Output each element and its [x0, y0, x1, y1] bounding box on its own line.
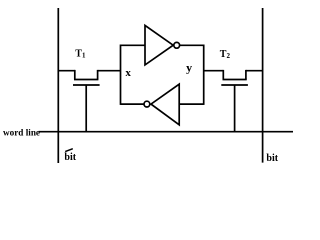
svg-text:T1: T1 [75, 48, 86, 59]
transistor T1 left terminal [74, 70, 76, 80]
inverter I1 triangle (top, points right) [145, 25, 173, 65]
inverter I2 output wire to node x [121, 103, 145, 105]
transistor T2 left terminal [222, 70, 224, 80]
transistor T1 right terminal [97, 70, 99, 80]
inverter I1 input wire (node x to triangle) [121, 44, 146, 46]
svg-text:bit: bit [64, 152, 76, 163]
transistor T2 gate [221, 84, 248, 86]
bit-bar line (left vertical bit line) [57, 8, 59, 163]
svg-text:y: y [186, 60, 192, 74]
svg-text:T2: T2 [220, 49, 231, 60]
transistor T2 right wire to bit line [246, 70, 263, 72]
transistor T1 right source wire to node x [98, 70, 121, 72]
node x vertical wire [120, 45, 122, 105]
word line (horizontal) [39, 131, 294, 133]
inverter I2 triangle (bottom, points left) [151, 84, 179, 125]
transistor T2 left wire from node y [204, 70, 224, 72]
svg-text:bit: bit [266, 153, 278, 164]
transistor T2 right terminal [245, 70, 247, 80]
inverter I2 output bubble [144, 101, 150, 107]
node y vertical wire [203, 45, 205, 105]
svg-text:word line: word line [3, 127, 40, 137]
bit line (right vertical bit line) [262, 8, 264, 163]
inverter I1 output bubble [174, 42, 180, 48]
transistor T1 gate stub to word line [85, 85, 87, 132]
bit-bar overline accent [65, 149, 73, 152]
inverter I1 output wire to node y [180, 44, 204, 46]
transistor T1 gate [73, 84, 100, 86]
svg-text:x: x [125, 67, 131, 79]
transistor T1 channel [74, 79, 98, 81]
inverter I2 input wire (node y to triangle) [179, 103, 204, 105]
transistor T1 left drain wire [58, 70, 75, 72]
transistor T2 gate stub to word line [234, 85, 236, 132]
transistor T2 channel [223, 79, 247, 81]
